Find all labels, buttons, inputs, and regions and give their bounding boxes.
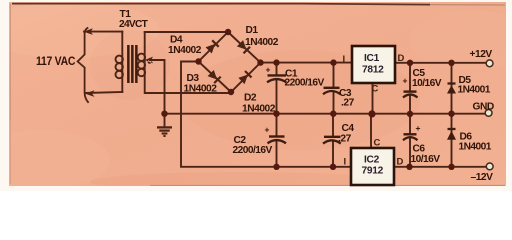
- terminal +12V: [486, 60, 493, 67]
- svg-text:–12V: –12V: [471, 172, 494, 183]
- IC1 7812 regulator: [343, 46, 405, 95]
- diode D6 lead: [451, 114, 453, 167]
- node: C3 C4 mid: [330, 111, 336, 117]
- left border line: [9, 4, 11, 120]
- transformer T1 secondary winding: [145, 32, 231, 93]
- node: C5 top: [407, 60, 413, 66]
- node: D6 bottom: [448, 164, 454, 170]
- svg-text:1N4002: 1N4002: [242, 104, 276, 115]
- IC2 common pin wire: [370, 114, 372, 148]
- node: C1 top: [273, 59, 279, 65]
- svg-text:IC1: IC1: [364, 53, 380, 64]
- node: bridge top corner: [225, 29, 231, 35]
- node: D5 D6 mid: [448, 111, 454, 117]
- svg-text:10/16V: 10/16V: [411, 154, 441, 165]
- wire: IC1 output to +12V terminal: [395, 62, 486, 64]
- svg-text:D: D: [397, 157, 404, 168]
- salmon panel: [9, 2, 506, 186]
- svg-text:2200/16V: 2200/16V: [285, 78, 325, 89]
- wire: bridge minus corner to -V rail: [181, 62, 486, 167]
- arrow: center tap: [145, 57, 153, 64]
- node: C5 C6 mid: [407, 111, 413, 117]
- svg-text:1N4002: 1N4002: [184, 84, 218, 95]
- wire: primary bottom lead: [86, 92, 122, 93]
- diode D5 lead: [451, 63, 453, 114]
- node: bridge left corner: [195, 58, 201, 64]
- svg-text:I: I: [343, 54, 345, 65]
- capacitor C6: [403, 123, 440, 165]
- svg-text:7812: 7812: [362, 65, 384, 76]
- svg-text:24VCT: 24VCT: [119, 19, 149, 30]
- transformer T1 primary winding: [121, 32, 123, 92]
- node: C2 bottom: [273, 164, 279, 170]
- IC2 7912 regulator: [344, 138, 404, 186]
- svg-text:117 VAC: 117 VAC: [36, 55, 75, 68]
- node: bridge bottom corner: [228, 89, 234, 95]
- svg-text:7912: 7912: [362, 166, 384, 177]
- capacitor C3: [323, 88, 355, 109]
- svg-text:1N4002: 1N4002: [245, 37, 279, 48]
- arrow: primary bottom lead: [85, 90, 95, 97]
- wire: primary top lead: [84, 31, 122, 33]
- diode D1 (bridge upper-right): [237, 40, 250, 53]
- node: C4 bottom: [330, 164, 336, 170]
- node: D5 top: [448, 60, 454, 66]
- IC1 common pin wire: [372, 83, 374, 114]
- svg-text:+12V: +12V: [470, 49, 493, 60]
- node: IC2 output C6: [406, 164, 412, 170]
- arrow: primary top lead: [84, 28, 94, 35]
- capacitor C3 leads: [333, 63, 335, 114]
- svg-text:1N4001: 1N4001: [458, 85, 491, 96]
- diode D2 (bridge lower-right): [238, 71, 251, 84]
- wire: top rail secondary to bridge: [145, 31, 228, 33]
- svg-text:GND: GND: [473, 102, 494, 113]
- bridge rectifier diamond: [199, 32, 261, 92]
- svg-text:1N4001: 1N4001: [459, 142, 492, 153]
- capacitor C2 leads: [276, 114, 278, 167]
- svg-text:.27: .27: [341, 98, 355, 109]
- node: bridge right corner: [257, 59, 263, 65]
- top border line: [12, 4, 430, 5]
- ground symbol: [157, 114, 172, 136]
- terminal -12V: [486, 163, 493, 170]
- capacitor C1: [266, 65, 325, 89]
- svg-text:D: D: [398, 53, 405, 64]
- svg-text:+: +: [266, 65, 271, 75]
- bottom border line: [150, 184, 505, 186]
- node: IC common pins: [368, 110, 375, 117]
- svg-text:.27: .27: [338, 134, 352, 145]
- svg-text:I: I: [344, 157, 346, 168]
- svg-text:1N4002: 1N4002: [168, 45, 202, 56]
- svg-text:IC2: IC2: [364, 155, 380, 166]
- capacitor C4: [323, 123, 354, 145]
- svg-text:+: +: [265, 125, 270, 135]
- capacitor C1 leads: [276, 63, 278, 114]
- transformer core: [127, 45, 138, 83]
- diode D4 (bridge upper-left): [205, 40, 218, 53]
- svg-text:D3: D3: [187, 73, 200, 84]
- capacitor C2: [233, 125, 287, 157]
- svg-text:+: +: [403, 76, 408, 86]
- svg-text:C: C: [374, 138, 381, 149]
- diode D6: [447, 129, 492, 153]
- capacitor C6 leads: [409, 114, 411, 167]
- wire: +V rail bridge to IC1: [261, 62, 353, 64]
- terminal GND: [485, 110, 492, 117]
- brace 117 VAC: [78, 28, 89, 103]
- diode D3 (bridge lower-left): [207, 70, 220, 83]
- svg-text:10/16V: 10/16V: [412, 78, 442, 89]
- wire: GND mid rail: [165, 113, 487, 115]
- svg-text:2200/16V: 2200/16V: [233, 145, 273, 156]
- svg-text:D2: D2: [244, 93, 257, 104]
- capacitor C5: [403, 68, 442, 98]
- svg-text:C6: C6: [413, 144, 426, 155]
- svg-text:C: C: [372, 84, 379, 95]
- svg-text:+: +: [416, 123, 421, 133]
- diode D5: [447, 75, 491, 96]
- node: C1 C2 mid: [273, 111, 279, 117]
- capacitor C4 leads: [332, 114, 334, 167]
- node: C3 top: [330, 59, 336, 65]
- svg-text:C4: C4: [342, 123, 355, 134]
- svg-text:D1: D1: [246, 25, 259, 36]
- paper background: [0, 0, 512, 191]
- node: center tap ground: [161, 111, 167, 117]
- capacitor C5 leads: [409, 63, 411, 114]
- wire: center tap to ground junction: [150, 60, 165, 114]
